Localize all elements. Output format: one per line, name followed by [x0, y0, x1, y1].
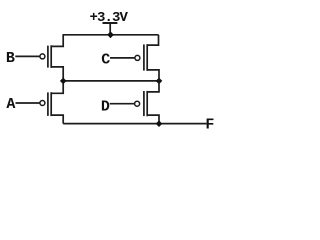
- wire C gate lead: [110, 57, 135, 59]
- svg-text:C: C: [101, 52, 110, 69]
- junction mid-left: [60, 78, 67, 85]
- svg-text:B: B: [6, 50, 15, 67]
- transistor QA (input A, PMOS): [40, 81, 63, 124]
- junction output: [156, 120, 163, 127]
- svg-text:D: D: [101, 99, 110, 116]
- wire D gate lead: [110, 103, 135, 105]
- transistor QD (input D, PMOS): [135, 81, 159, 124]
- power symbol +3.3V: [89, 10, 128, 35]
- svg-text:F: F: [205, 116, 214, 133]
- wire output rail: [63, 123, 206, 125]
- transistor QC (input C, PMOS): [135, 35, 159, 81]
- wire B gate lead: [15, 55, 40, 57]
- wire A gate lead: [16, 102, 40, 104]
- junction mid-right: [156, 78, 163, 85]
- junction VDD tap: [107, 31, 114, 38]
- transistor QB (input B, PMOS): [40, 35, 63, 81]
- wire VDD rail: [63, 34, 159, 36]
- svg-text:A: A: [6, 96, 15, 113]
- wire mid net: [63, 80, 159, 82]
